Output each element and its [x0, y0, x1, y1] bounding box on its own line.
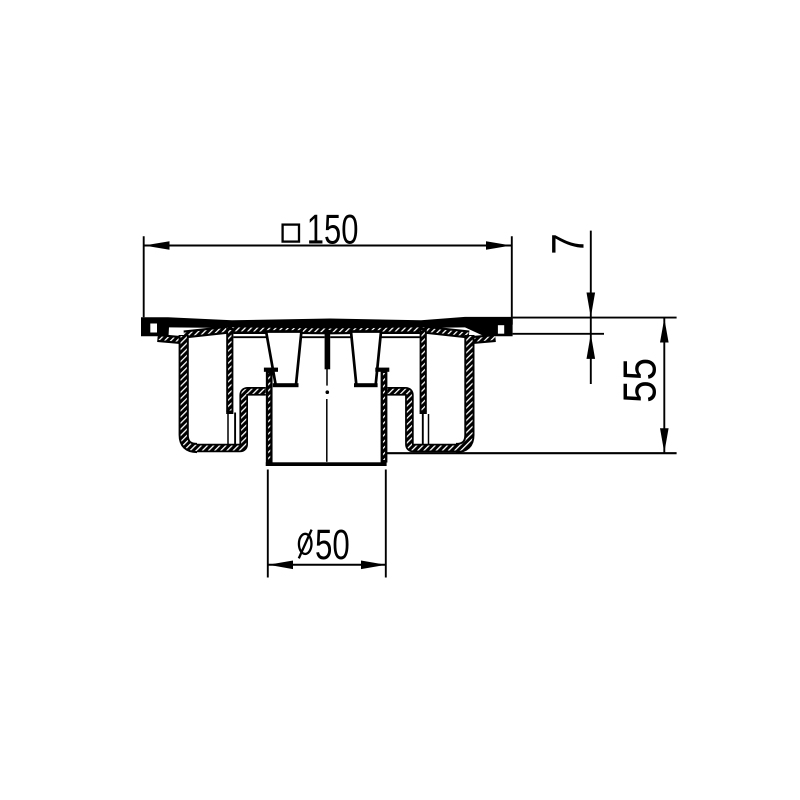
- node funnel slot floor lines: [234, 333, 420, 337]
- node central rib: [325, 330, 331, 369]
- node outlet pipe bottom edge: [266, 462, 387, 466]
- wire funnel insert wall left: [226, 328, 235, 446]
- wire extension line left of dim 150: [143, 236, 145, 317]
- node arrow down of dim 55: [660, 428, 669, 452]
- node top plate grate frame: [141, 317, 513, 336]
- wire outlet pipe right wall: [381, 368, 388, 463]
- node arrow right of dim 50: [361, 561, 386, 570]
- wire body left wall and trap channel: [184, 335, 266, 448]
- wire dimension line 7: [590, 231, 592, 384]
- node plate hook notch right: [498, 325, 504, 334]
- node value label 55: [615, 358, 666, 403]
- wire dimension line 55: [663, 318, 665, 453]
- wire flange hatched band under plate: [158, 329, 496, 340]
- wire dimension line 150: [144, 245, 512, 247]
- svg-text:55: 55: [615, 358, 666, 403]
- wire extension line right of dim 50: [385, 470, 387, 578]
- wire outlet pipe left wall: [266, 368, 273, 463]
- node value label 7: [543, 233, 594, 254]
- node funnel leg left: [266, 332, 301, 388]
- wire reference line body bottom right: [383, 452, 677, 454]
- node arrow right of dim 150: [486, 241, 512, 250]
- node outlet pipe rim lip left: [264, 368, 278, 372]
- svg-text:150: 150: [307, 206, 359, 253]
- wire extension line right of dim 150: [511, 236, 513, 324]
- node arrow up of dim 7: [587, 334, 596, 359]
- wire dimension line 50: [268, 564, 386, 566]
- wire extension line left of dim 50: [267, 470, 269, 578]
- svg-text:7: 7: [543, 233, 594, 254]
- node funnel leg right: [351, 332, 381, 388]
- node diameter symbol of label 50: [299, 530, 312, 559]
- wire body right wall and trap channel: [387, 335, 469, 448]
- wire centerline upper dash: [326, 368, 328, 385]
- wire reference line flange bottom right: [513, 333, 604, 335]
- node arrow left of dim 150: [144, 241, 170, 250]
- node arrow left of dim 50: [268, 561, 293, 570]
- node arrow down of dim 7: [587, 293, 596, 318]
- wire reference line flange top right: [513, 317, 677, 319]
- wire centerline lower dash: [326, 399, 328, 462]
- node outlet pipe rim lip right: [375, 368, 389, 372]
- node square symbol of label 150: [283, 225, 299, 242]
- wire funnel insert wall right: [420, 328, 429, 446]
- node value label 150: [307, 206, 359, 253]
- node arrow up of dim 55: [660, 318, 669, 342]
- node value label 50: [315, 520, 350, 568]
- svg-text:50: 50: [315, 520, 350, 568]
- node plate hook notch left: [150, 324, 157, 333]
- node centerline dot: [326, 390, 330, 394]
